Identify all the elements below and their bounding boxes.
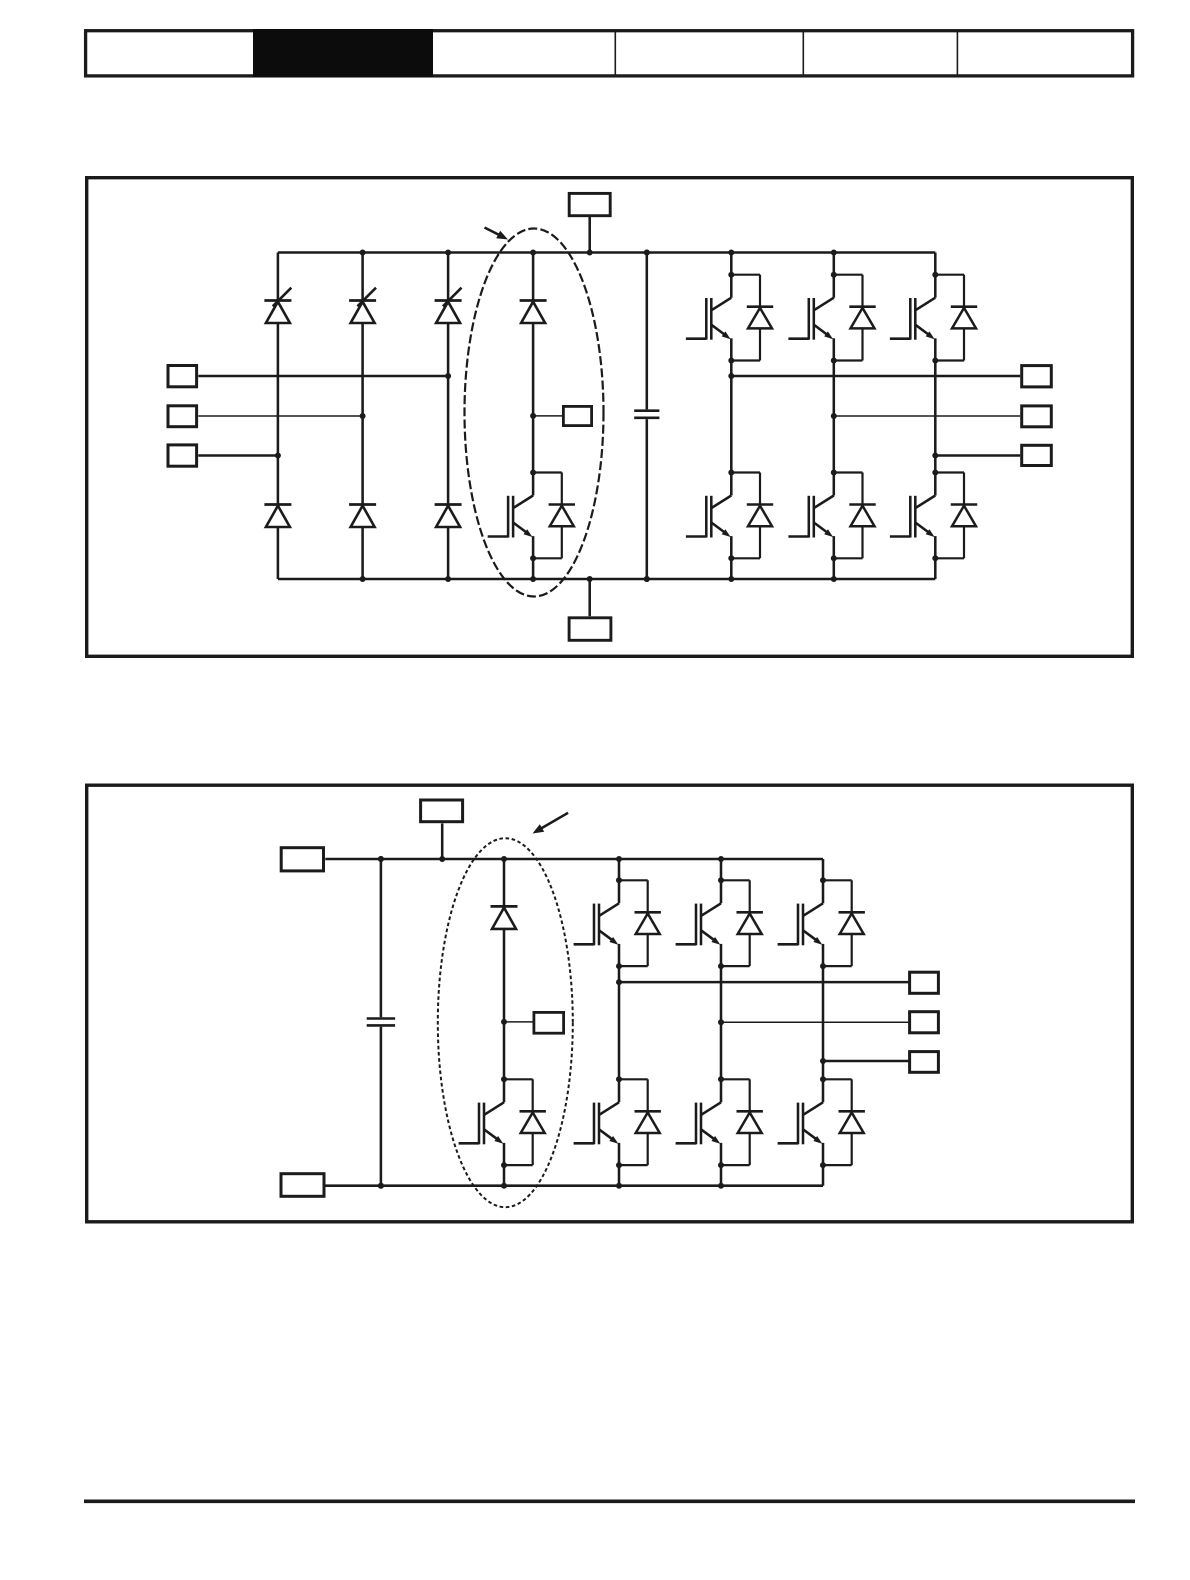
junction bottom bus (figure 2) xyxy=(616,1183,622,1189)
terminal box output W (figure 2) xyxy=(910,1052,939,1073)
IGBT inverter leg 1 bottom xyxy=(686,473,773,559)
terminal box output W xyxy=(1022,445,1052,465)
wire rectifier leg 2 lower xyxy=(361,527,364,579)
wire output U (figure 2) xyxy=(619,981,908,984)
capacitor DC link (figure 2) xyxy=(367,1019,395,1026)
node DC+ : top bus wire (figure 2) xyxy=(325,858,823,861)
junction capacitor / top bus (figure 2) xyxy=(378,856,384,862)
terminal box input L2 xyxy=(168,406,197,427)
annotation arrow to braking circuit xyxy=(485,228,501,236)
junction inverter leg 2 phase tap xyxy=(831,413,837,419)
junction inverter leg 2 bottom collector (figure 2) xyxy=(718,1076,724,1082)
wire rectifier leg 3 middle xyxy=(447,323,450,505)
wire output V (thin) xyxy=(834,415,1020,417)
junction input L2 / leg 2 xyxy=(360,413,366,419)
wire braking leg middle xyxy=(532,323,535,473)
junction top bus (figure 2) xyxy=(378,856,384,862)
wire inverter leg 3 from top bus xyxy=(934,253,937,275)
junction inverter leg 1 bottom emitter (figure 2) xyxy=(616,1162,622,1168)
junction inverter leg 2 bottom collector xyxy=(831,470,837,476)
wire rectifier leg 1 lower xyxy=(277,527,280,579)
diode braking leg top xyxy=(520,301,547,324)
terminal box output U (figure 2) xyxy=(910,972,939,993)
wire rectifier leg 1 upper xyxy=(277,253,280,301)
footer rule xyxy=(84,1500,1135,1504)
IGBT inverter leg 3 bottom (figure 2) xyxy=(778,1079,865,1165)
wire inverter leg 3 midsection (figure 2) xyxy=(822,966,825,1079)
junction bottom bus xyxy=(530,576,536,582)
junction inverter leg 1 bottom collector xyxy=(728,470,734,476)
junction bottom bus xyxy=(831,576,837,582)
junction top bus (figure 2) xyxy=(718,856,724,862)
wire rectifier leg 1 middle xyxy=(277,323,280,505)
junction capacitor / top bus xyxy=(644,250,650,256)
wire input L1 to rectifier leg 3 xyxy=(198,375,448,378)
junction inverter leg 1 bottom emitter xyxy=(728,555,734,561)
wire rectifier leg 2 middle xyxy=(361,323,364,505)
wire inverter leg 1 to bottom bus xyxy=(730,558,733,579)
junction inverter leg 2 top emitter (figure 2) xyxy=(718,963,724,969)
junction inverter leg 2 bottom emitter (figure 2) xyxy=(718,1162,724,1168)
label box DC+ terminal xyxy=(569,193,610,215)
IGBT braking chopper (figure 2) xyxy=(459,1079,546,1165)
thyristor rectifier leg 2 xyxy=(349,288,376,323)
terminal box DC+ input xyxy=(281,848,323,871)
junction top bus xyxy=(360,250,366,256)
junction braking IGBT emitter xyxy=(530,555,536,561)
header cell divider 1 xyxy=(614,30,616,76)
node DC- : bottom bus wire xyxy=(278,578,935,581)
wire braking leg upper (figure 2) xyxy=(503,859,506,906)
IGBT inverter leg 1 bottom (figure 2) xyxy=(574,1079,661,1165)
junction inverter leg 2 top emitter xyxy=(831,358,837,364)
wire input L2 to rectifier leg 2 (thin) xyxy=(198,415,362,417)
header cell divider 3 xyxy=(956,30,958,76)
IGBT inverter leg 1 top xyxy=(686,275,773,361)
junction inverter leg 3 bottom collector (figure 2) xyxy=(820,1076,826,1082)
wire brake tap to label box (thin) xyxy=(533,415,562,417)
junction inverter leg 1 top collector (figure 2) xyxy=(616,877,622,883)
IGBT inverter leg 1 top (figure 2) xyxy=(574,880,661,966)
label box brake resistor terminal (figure 2) xyxy=(534,1012,564,1033)
junction capacitor / bottom bus (figure 2) xyxy=(378,1183,384,1189)
wire rectifier leg 3 lower xyxy=(447,527,450,579)
wire inverter leg 2 to bottom bus xyxy=(833,558,836,579)
node DC- : bottom bus wire (figure 2) xyxy=(325,1184,823,1187)
wire inverter leg 2 from top bus (figure 2) xyxy=(720,859,723,880)
wire output U xyxy=(731,375,1020,378)
wire inverter leg 2 from top bus xyxy=(833,253,836,275)
junction top bus xyxy=(831,250,837,256)
IGBT braking chopper xyxy=(488,473,575,559)
dashed ellipse around braking circuit (figure 2) xyxy=(438,838,573,1207)
terminal box input L3 xyxy=(168,445,197,466)
label box DC+ terminal (figure 2) xyxy=(421,800,463,822)
junction inverter leg 3 bottom collector xyxy=(932,470,938,476)
junction inverter leg 3 bottom emitter (figure 2) xyxy=(820,1162,826,1168)
junction inverter leg 1 top emitter (figure 2) xyxy=(616,963,622,969)
junction inverter leg 2 top collector xyxy=(831,272,837,278)
wire rectifier leg 3 upper xyxy=(447,253,450,301)
thyristor rectifier leg 3 xyxy=(435,288,462,323)
IGBT inverter leg 3 bottom xyxy=(890,473,977,559)
junction braking IGBT collector (figure 2) xyxy=(501,1076,507,1082)
junction capacitor / bottom bus xyxy=(644,576,650,582)
label box brake resistor terminal xyxy=(563,406,591,425)
wire braking leg middle (figure 2) xyxy=(503,929,506,1079)
wire DC+ label stub (figure 2) xyxy=(441,824,444,860)
node brake resistor tap xyxy=(530,413,536,419)
wire inverter leg 2 to bottom bus (figure 2) xyxy=(720,1165,723,1186)
annotation arrow to braking circuit (figure 2) xyxy=(541,813,568,829)
junction top bus xyxy=(644,250,650,256)
terminal box DC- input xyxy=(281,1174,324,1197)
IGBT inverter leg 2 bottom xyxy=(788,473,875,559)
wire inverter leg 1 to bottom bus (figure 2) xyxy=(618,1165,621,1186)
diode braking leg top (figure 2) xyxy=(491,906,518,929)
terminal box output V xyxy=(1022,406,1052,427)
wire rectifier leg 2 upper xyxy=(361,253,364,301)
wire inverter leg 1 midsection xyxy=(730,361,733,473)
junction bottom bus xyxy=(445,576,451,582)
wire braking leg lower xyxy=(532,558,535,579)
node brake resistor tap (figure 2) xyxy=(501,1019,507,1025)
wire DC- label stub xyxy=(588,579,591,616)
wire inverter leg 2 midsection (figure 2) xyxy=(720,966,723,1079)
junction DC+ stub / top bus xyxy=(587,250,593,256)
wire braking leg upper xyxy=(532,253,535,301)
junction bottom bus xyxy=(360,576,366,582)
junction top bus xyxy=(530,250,536,256)
wire capacitor upper (figure 2) xyxy=(380,859,383,1017)
junction inverter leg 1 phase tap (figure 2) xyxy=(616,979,622,985)
junction top bus (figure 2) xyxy=(616,856,622,862)
terminal box output V (figure 2) xyxy=(910,1012,939,1033)
wire inverter leg 3 midsection xyxy=(934,361,937,473)
junction inverter leg 2 bottom emitter xyxy=(831,555,837,561)
junction bottom bus xyxy=(644,576,650,582)
diode rectifier leg 1 bottom xyxy=(264,505,291,528)
IGBT inverter leg 3 top xyxy=(890,275,977,361)
IGBT inverter leg 2 top (figure 2) xyxy=(676,880,763,966)
IGBT inverter leg 3 top (figure 2) xyxy=(778,880,865,966)
wire inverter leg 1 from top bus (figure 2) xyxy=(618,859,621,880)
junction input L3 / leg 1 xyxy=(275,453,281,459)
figure 2 border box xyxy=(87,785,1133,1222)
capacitor DC link xyxy=(634,411,659,418)
terminal box output U xyxy=(1022,366,1052,387)
junction bottom bus (figure 2) xyxy=(378,1183,384,1189)
header cell filled black xyxy=(253,29,433,77)
header cell divider 2 xyxy=(802,30,804,76)
wire inverter leg 2 midsection xyxy=(833,361,836,473)
junction inverter leg 2 phase tap (figure 2) xyxy=(718,1019,724,1025)
junction inverter leg 3 top emitter (figure 2) xyxy=(820,963,826,969)
junction top bus xyxy=(445,250,451,256)
wire capacitor lower (figure 2) xyxy=(380,1027,383,1186)
diode rectifier leg 2 bottom xyxy=(349,505,376,528)
thyristor rectifier leg 1 xyxy=(264,288,291,323)
wire DC+ label stub xyxy=(588,217,591,253)
wire inverter leg 1 midsection (figure 2) xyxy=(618,966,621,1079)
junction inverter leg 3 phase tap xyxy=(932,453,938,459)
junction inverter leg 1 top collector xyxy=(728,272,734,278)
wire output W xyxy=(935,454,1020,457)
junction braking IGBT emitter (figure 2) xyxy=(501,1162,507,1168)
IGBT inverter leg 2 bottom (figure 2) xyxy=(676,1079,763,1165)
junction bottom bus (figure 2) xyxy=(501,1183,507,1189)
junction DC- stub / bottom bus xyxy=(587,576,593,582)
junction inverter leg 1 bottom collector (figure 2) xyxy=(616,1076,622,1082)
wire input L3 to rectifier leg 1 xyxy=(198,454,278,457)
junction inverter leg 3 phase tap (figure 2) xyxy=(820,1058,826,1064)
wire inverter leg 3 from top bus (figure 2) xyxy=(822,859,825,880)
figure 1 border box xyxy=(87,178,1133,657)
header table xyxy=(86,31,1133,76)
junction inverter leg 3 top collector (figure 2) xyxy=(820,877,826,883)
wire brake tap to label box (figure 2, thin) xyxy=(504,1021,533,1023)
junction inverter leg 3 top emitter xyxy=(932,358,938,364)
terminal box input L1 xyxy=(168,366,197,387)
junction top bus xyxy=(728,250,734,256)
IGBT inverter leg 2 top xyxy=(788,275,875,361)
wire braking leg lower (figure 2) xyxy=(503,1165,506,1186)
diode rectifier leg 3 bottom xyxy=(435,505,462,528)
dashed ellipse around braking circuit xyxy=(465,229,604,597)
junction input L1 / leg 3 xyxy=(445,373,451,379)
junction inverter leg 3 bottom emitter xyxy=(932,555,938,561)
junction inverter leg 2 top collector (figure 2) xyxy=(718,877,724,883)
wire inverter leg 3 to bottom bus (figure 2) xyxy=(822,1165,825,1186)
junction top bus (figure 2) xyxy=(501,856,507,862)
wire inverter leg 3 to bottom bus xyxy=(934,558,937,579)
junction inverter leg 1 top emitter xyxy=(728,358,734,364)
wire inverter leg 1 from top bus xyxy=(730,253,733,275)
junction bottom bus (figure 2) xyxy=(718,1183,724,1189)
junction bottom bus xyxy=(728,576,734,582)
junction inverter leg 3 top collector xyxy=(932,272,938,278)
junction DC+ stub / top bus (figure 2) xyxy=(439,856,445,862)
wire capacitor lower xyxy=(646,419,649,579)
node DC+ : top bus wire xyxy=(278,251,935,254)
wire capacitor upper xyxy=(646,253,649,410)
junction inverter leg 1 phase tap xyxy=(728,373,734,379)
label box DC- terminal xyxy=(569,618,611,641)
wire output V (figure 2, thin) xyxy=(721,1021,908,1023)
wire output W (figure 2) xyxy=(823,1060,908,1063)
junction braking IGBT collector xyxy=(530,470,536,476)
